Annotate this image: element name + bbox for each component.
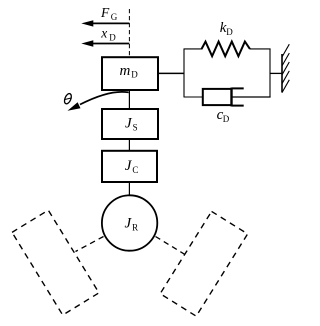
rotor J_R [102, 195, 157, 250]
svg-text:D: D [226, 27, 233, 37]
svg-text:F: F [100, 5, 110, 20]
svg-text:D: D [109, 33, 116, 43]
wire m_D to J_S [128, 90, 130, 109]
wire damper rod [233, 96, 271, 98]
svg-text:C: C [132, 165, 138, 175]
wire left vertical of parallel branch [183, 49, 185, 97]
label k_D [220, 20, 234, 37]
rotation arrow theta [68, 92, 129, 111]
wire J_C to J_R [128, 182, 130, 195]
svg-text:m: m [120, 63, 131, 79]
label J_R [125, 216, 139, 233]
svg-text:S: S [133, 122, 138, 132]
label c_D [217, 107, 230, 124]
mass m_D [102, 57, 158, 90]
inertia J_C [102, 151, 157, 182]
wire bottom branch left lead [184, 96, 204, 98]
ground wall [282, 44, 289, 92]
wire from m_D to spring-damper [158, 72, 184, 74]
wire to wall [270, 72, 283, 74]
label theta [63, 93, 73, 105]
wire dashed link to right pad [156, 237, 186, 255]
wire dashed centerline above m_D [128, 9, 130, 57]
right pad (dashed) [160, 211, 247, 316]
svg-text:R: R [132, 223, 138, 233]
wire right vertical of parallel branch [269, 49, 271, 97]
wire J_S to J_C [128, 139, 130, 151]
spring k_D [202, 42, 250, 57]
wire top branch left lead [184, 48, 203, 50]
label F_G [100, 5, 118, 22]
svg-text:G: G [111, 12, 118, 22]
inertia J_S [102, 109, 158, 139]
svg-text:x: x [100, 26, 107, 41]
label J_S [125, 115, 138, 132]
label x_D [100, 26, 116, 43]
svg-text:D: D [223, 114, 230, 124]
label m_D [120, 63, 139, 80]
arrow x_D [81, 40, 129, 46]
svg-text:D: D [131, 70, 138, 80]
wire top branch right lead [250, 48, 271, 50]
damper c_D [203, 88, 244, 107]
wire dashed link to left pad [76, 237, 104, 252]
label J_C [125, 158, 139, 175]
left pad (dashed) [12, 210, 99, 315]
arrow F_G [81, 20, 129, 26]
